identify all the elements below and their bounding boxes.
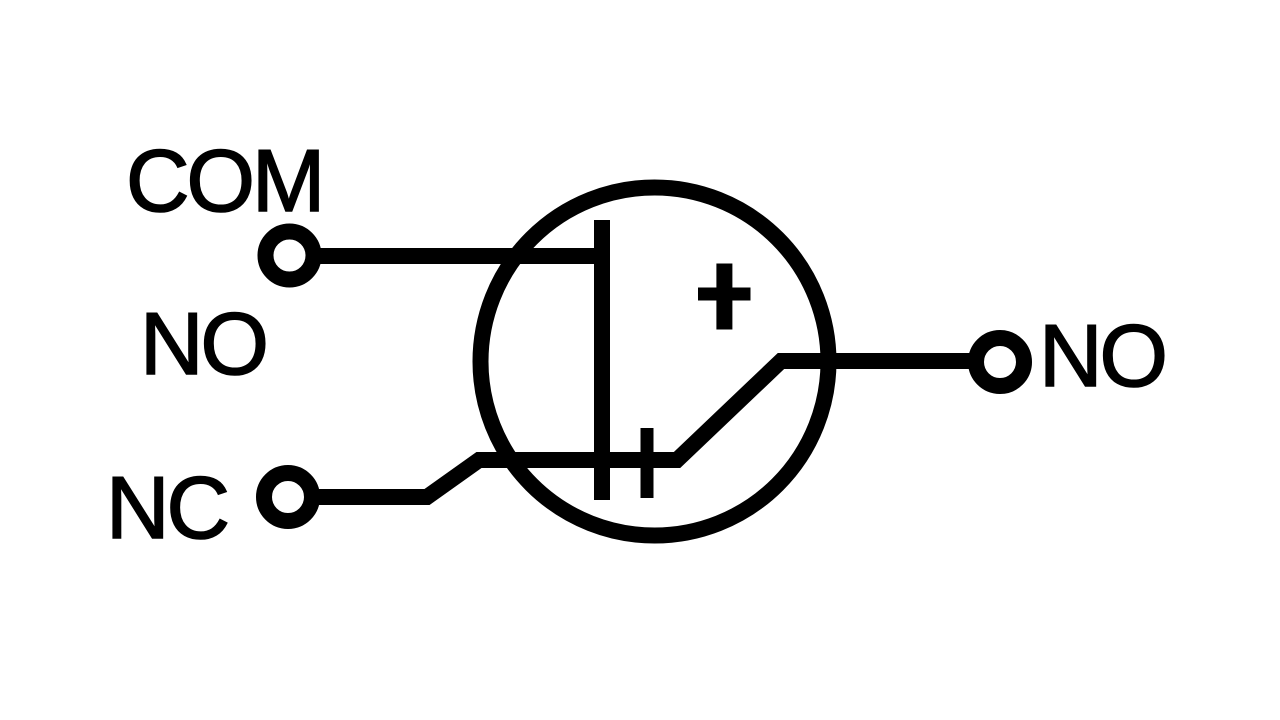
- svg-text:NO: NO: [140, 294, 266, 393]
- svg-text:COM: COM: [126, 131, 322, 230]
- svg-text:NC: NC: [106, 458, 228, 557]
- svg-text:NO: NO: [1039, 306, 1165, 405]
